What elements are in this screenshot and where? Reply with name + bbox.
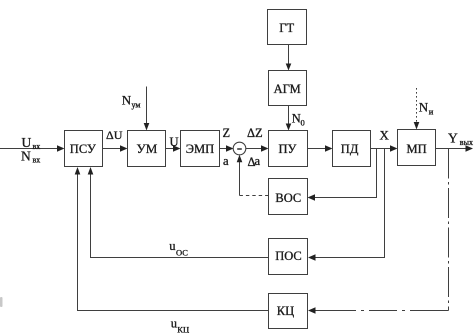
svg-text:УМ: УМ [137, 141, 158, 156]
svg-text:ВОС: ВОС [275, 191, 301, 205]
svg-text:и: и [429, 106, 434, 116]
svg-text:0: 0 [301, 118, 305, 128]
wire MP output Yvyx with arrow [436, 148, 468, 150]
wire tap Y output down dash-dot and left into KC, arrow [448, 149, 450, 311]
box PD (ПД) [333, 131, 371, 167]
scan smudge at left edge (decorative) [0, 297, 3, 307]
wire Num disturbance arrow into UM [146, 87, 148, 126]
box UM (УМ) [128, 131, 166, 167]
svg-text:Z: Z [223, 126, 231, 140]
svg-text:a: a [223, 154, 229, 168]
wire Ni disturbance dotted arrow into MP [416, 88, 418, 124]
svg-text:a: a [255, 154, 261, 168]
wire UM to EMP with arrow, label U [166, 148, 176, 150]
wire PSU to UM with arrow [103, 148, 123, 150]
box POS (ПОС) [269, 239, 308, 275]
svg-text:МП: МП [407, 142, 427, 156]
box PSU (ПСУ) [65, 131, 103, 167]
box KC (КЦ) [269, 294, 308, 329]
svg-text:ЭМП: ЭМП [186, 142, 214, 156]
svg-text:КЦ: КЦ [277, 304, 294, 318]
svg-text:N: N [21, 149, 31, 164]
svg-text:ОС: ОС [176, 248, 188, 258]
wire VOS output dashed to junction, arrow up into circle [240, 195, 269, 197]
box PU (ПУ) [269, 131, 308, 167]
box VOS (ВОС) [269, 179, 308, 215]
svg-text:ПСУ: ПСУ [70, 142, 96, 156]
svg-text:ПУ: ПУ [279, 142, 297, 156]
svg-text:ΔZ: ΔZ [247, 126, 263, 140]
svg-text:N: N [292, 112, 301, 126]
svg-text:ПД: ПД [341, 142, 359, 156]
box AGM (АГМ) [269, 71, 307, 106]
svg-text:N: N [419, 100, 429, 115]
wire PU to PD with arrow [308, 148, 328, 150]
box GT (ГТ) [268, 10, 307, 45]
svg-text:ум: ум [132, 101, 141, 110]
summing junction (comparator circle with minus) [233, 142, 246, 155]
svg-text:ΔU: ΔU [106, 128, 123, 142]
svg-text:вх: вх [33, 142, 41, 151]
wire KC output uKC left and up into PSU, arrow [78, 173, 269, 311]
wire EMP to summing junction with arrow [220, 148, 229, 150]
svg-text:N: N [122, 92, 132, 107]
svg-text:АГМ: АГМ [274, 82, 301, 96]
svg-text:КЦ: КЦ [177, 324, 189, 333]
wire POS output uOC left and up into PSU, arrow [91, 173, 269, 258]
wire tap X down to VOS with arrow into VOS [314, 149, 377, 198]
box MP (МП) [398, 130, 436, 166]
wire GT to AGM with arrow [288, 45, 290, 65]
svg-text:вх: вх [33, 155, 41, 164]
wire junction to PU with arrow [246, 148, 263, 150]
svg-text:ПОС: ПОС [275, 249, 302, 263]
svg-text:вых: вых [460, 138, 473, 147]
wire tap X down to POS with arrow into POS [314, 149, 385, 258]
svg-text:Y: Y [448, 131, 458, 146]
wire input with arrow into PSU [0, 148, 59, 150]
wire PD to MP with arrow, node X [371, 148, 393, 150]
svg-text:ГТ: ГТ [279, 21, 294, 35]
svg-text:X: X [380, 128, 390, 143]
svg-text:U: U [170, 135, 179, 149]
box EMP (ЭМП) [181, 131, 220, 167]
wire AGM to PU with arrow [288, 106, 290, 126]
